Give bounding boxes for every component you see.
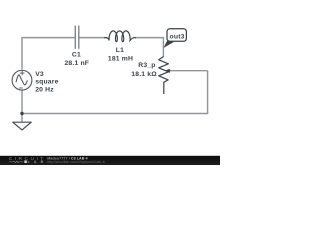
svg-text:181 mH: 181 mH (108, 56, 133, 63)
capacitor C1 (75, 26, 79, 49)
wire source bottom to ground (21, 90, 23, 121)
svg-text:V3: V3 (35, 71, 44, 78)
wire top-left loop (22, 38, 75, 70)
svg-text:20 Hz: 20 Hz (35, 87, 54, 94)
svg-text:out3: out3 (170, 34, 185, 41)
svg-text:C1: C1 (72, 52, 81, 59)
wire bottom rail and right rail (22, 71, 208, 114)
source plus sign (20, 71, 25, 75)
wire cap to inductor lead (80, 37, 105, 39)
svg-text:L1: L1 (116, 47, 124, 54)
watermark logo wire symbol (9, 161, 23, 163)
wire wiper to right rail (168, 70, 208, 72)
svg-text:18.1 kΩ: 18.1 kΩ (131, 71, 157, 78)
wire inductor to right corner down to pot (135, 38, 163, 57)
source sine glyph (16, 75, 28, 85)
voltage source V3 circle (12, 70, 32, 90)
watermark bar (0, 156, 220, 165)
out3 flag tail (164, 41, 175, 48)
svg-text:square: square (35, 79, 58, 86)
potentiometer wiper arrow (165, 69, 170, 73)
svg-text:http://circuitlab.com/c/6qt4pw: http://circuitlab.com/c/6qt4pw/c3-lab-4/ (47, 160, 105, 164)
svg-text:R3_p: R3_p (138, 62, 155, 69)
potentiometer R3_p zigzag (159, 57, 169, 94)
source minus sign (19, 87, 23, 89)
out3 flag box (167, 29, 186, 42)
inductor L1 (104, 31, 136, 42)
watermark logo block (24, 160, 27, 163)
wires (22, 38, 208, 122)
junction dot (20, 112, 23, 115)
svg-text:28.1 nF: 28.1 nF (64, 60, 89, 67)
ground (13, 122, 32, 130)
